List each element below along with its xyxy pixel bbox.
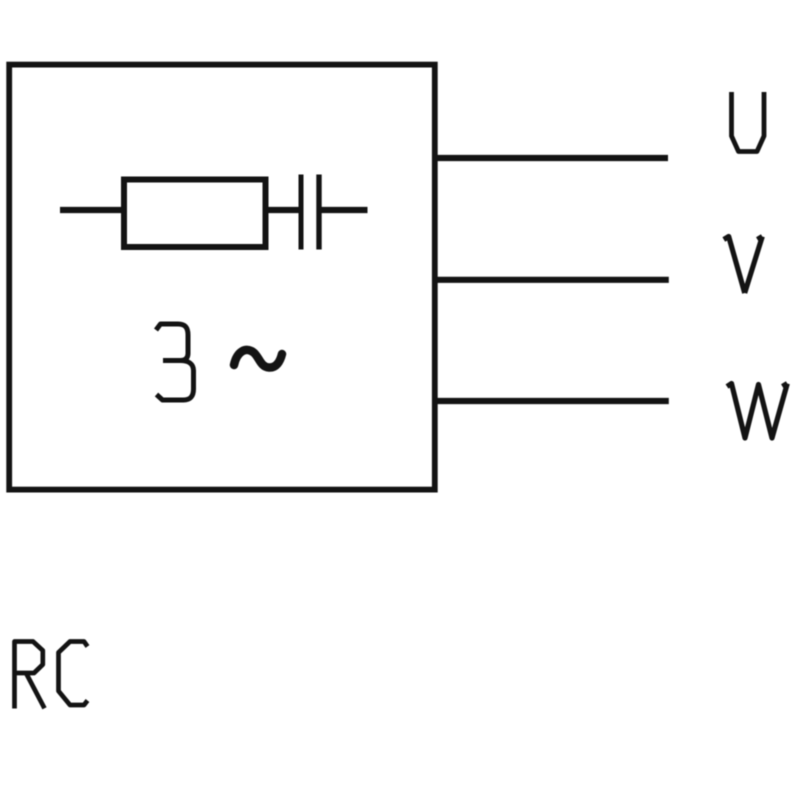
label W [727,384,787,439]
label RC : letter R [15,642,45,709]
wire terminal V [434,277,669,283]
enclosure box U1 [9,65,435,490]
wire terminal U [434,155,668,161]
label RC : letter C [59,642,88,706]
label V [724,237,763,294]
label 3~ (three-phase) : digit 3 [156,324,194,400]
label U [732,92,765,152]
label 3~ (three-phase) : tilde [234,350,282,368]
wire (resistor to capacitor) [266,207,299,213]
wire terminal W [434,398,669,404]
capacitor C plate 2 [316,175,321,250]
wire (left lead to resistor) [60,207,124,213]
capacitor C plate 1 [299,175,304,250]
wire (capacitor right lead) [321,207,368,213]
resistor R [124,180,266,248]
